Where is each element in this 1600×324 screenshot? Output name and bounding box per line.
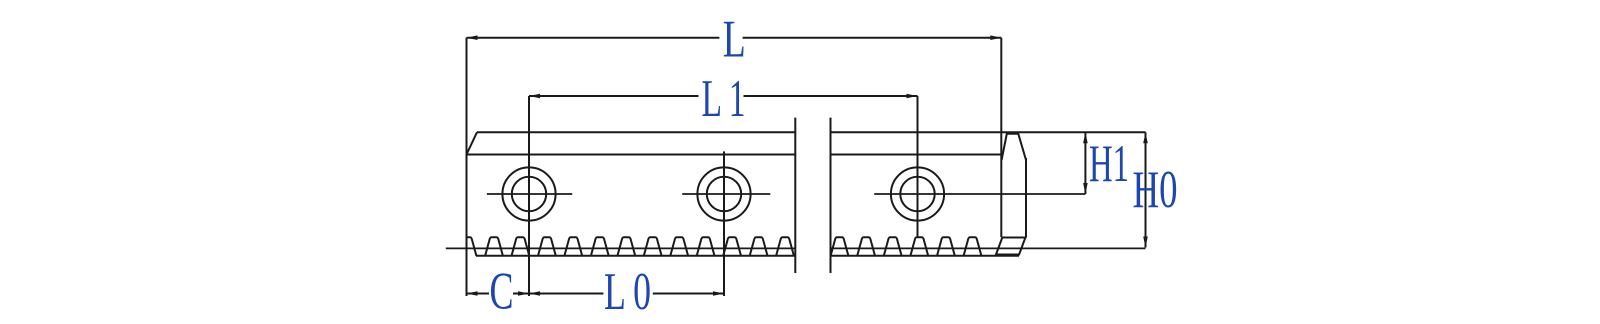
rack teeth right section	[831, 237, 982, 256]
dimension L line	[467, 37, 1002, 39]
hole2 extension line	[723, 151, 725, 296]
dimension L0 arrows	[529, 291, 724, 296]
dimension C line	[467, 293, 530, 295]
svg-text:L 1: L 1	[702, 70, 746, 128]
dimension H0 line	[1145, 132, 1147, 247]
rack top edge	[477, 131, 1146, 133]
end cap top chamfer	[1002, 134, 1026, 160]
svg-text:L: L	[723, 11, 746, 69]
left chamfer	[467, 132, 478, 154]
right extension line	[1000, 38, 1002, 238]
dimension L1 arrows	[529, 94, 918, 99]
dimension H1 arrows	[1083, 132, 1088, 194]
end cap right line	[1025, 158, 1027, 238]
dimension L1 line	[529, 95, 918, 97]
hole3 extension line	[917, 96, 919, 237]
break line right	[830, 118, 832, 273]
hole 2 center line	[682, 193, 770, 195]
hole 3 center line	[874, 193, 1085, 195]
hole 1 counterbore	[502, 167, 555, 220]
svg-text:H1: H1	[1089, 135, 1129, 193]
rack teeth left section	[459, 237, 794, 256]
pitch line	[446, 247, 1146, 249]
rack upper face edge	[467, 154, 1002, 156]
left extension line	[466, 38, 468, 296]
dimension L arrows	[467, 35, 1002, 40]
svg-text:H0: H0	[1133, 161, 1178, 219]
end cap bottom chamfer	[996, 238, 1025, 255]
hole1 extension line	[528, 96, 530, 296]
dimension L0 line	[529, 293, 724, 295]
dimension C arrows	[467, 291, 530, 296]
dimension H1 line	[1084, 132, 1086, 194]
hole 1 center line	[487, 193, 572, 195]
hole 3 counterbore	[891, 167, 944, 220]
root bottom line	[476, 255, 1019, 257]
dimension H0 arrows	[1143, 132, 1148, 247]
svg-text:C: C	[490, 263, 514, 321]
hole 2 counterbore	[697, 167, 750, 220]
break line left	[794, 118, 796, 273]
svg-text:L 0: L 0	[604, 263, 651, 321]
